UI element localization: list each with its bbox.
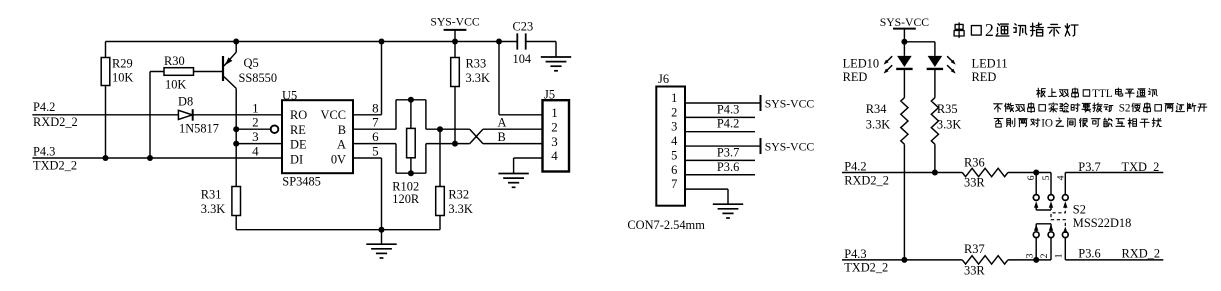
svg-text:A: A <box>337 138 346 152</box>
svg-text:J6: J6 <box>658 72 669 86</box>
svg-text:R33: R33 <box>466 57 487 71</box>
svg-text:P4.2: P4.2 <box>717 117 739 131</box>
svg-text:R29: R29 <box>112 57 133 71</box>
svg-text:TXD2_2: TXD2_2 <box>33 159 77 173</box>
svg-text:7: 7 <box>372 115 379 130</box>
svg-text:VCC: VCC <box>321 108 346 122</box>
svg-text:10K: 10K <box>112 70 133 84</box>
svg-text:J5: J5 <box>544 87 555 101</box>
svg-text:S2: S2 <box>1073 203 1086 217</box>
svg-text:P4.2: P4.2 <box>844 160 866 174</box>
svg-text:104: 104 <box>513 52 532 66</box>
svg-text:DE: DE <box>290 138 307 152</box>
svg-text:3.3K: 3.3K <box>448 202 472 216</box>
svg-text:R37: R37 <box>964 242 985 256</box>
svg-text:2: 2 <box>252 115 259 130</box>
svg-text:1: 1 <box>551 105 558 120</box>
svg-text:1: 1 <box>1054 253 1065 258</box>
svg-text:3.3K: 3.3K <box>466 71 490 85</box>
svg-text:R35: R35 <box>937 102 958 116</box>
svg-text:LED11: LED11 <box>972 57 1008 71</box>
svg-text:SYS-VCC: SYS-VCC <box>765 140 815 153</box>
svg-text:R30: R30 <box>164 54 185 68</box>
svg-text:6: 6 <box>671 163 677 177</box>
svg-text:1: 1 <box>671 91 677 105</box>
svg-text:TXD_2: TXD_2 <box>1122 160 1160 174</box>
svg-text:DI: DI <box>290 152 303 166</box>
svg-text:LED10: LED10 <box>843 57 879 71</box>
svg-text:B: B <box>338 123 346 137</box>
svg-text:8: 8 <box>372 100 379 115</box>
svg-text:P4.3: P4.3 <box>717 102 739 116</box>
svg-text:P4.2: P4.2 <box>33 100 55 114</box>
svg-text:D8: D8 <box>178 95 193 109</box>
svg-text:SYS-VCC: SYS-VCC <box>880 16 930 29</box>
svg-text:L: L <box>1106 88 1113 100</box>
svg-text:3.3K: 3.3K <box>201 202 225 216</box>
svg-text:P4.3: P4.3 <box>33 145 55 159</box>
svg-text:R34: R34 <box>866 102 887 116</box>
svg-text:1: 1 <box>252 100 259 115</box>
svg-text:SS8550: SS8550 <box>239 71 278 85</box>
svg-text:CON7-2.54mm: CON7-2.54mm <box>627 218 705 232</box>
svg-text:3: 3 <box>671 120 677 134</box>
svg-text:33R: 33R <box>964 264 985 278</box>
svg-text:RXD2_2: RXD2_2 <box>844 174 889 188</box>
svg-text:4: 4 <box>252 144 259 159</box>
svg-text:4: 4 <box>671 134 677 148</box>
svg-text:A: A <box>498 116 507 130</box>
svg-text:2: 2 <box>985 20 994 40</box>
svg-text:6: 6 <box>372 129 379 144</box>
svg-text:TXD2_2: TXD2_2 <box>844 261 888 275</box>
svg-text:3: 3 <box>252 129 259 144</box>
svg-text:2: 2 <box>1125 103 1131 115</box>
svg-text:P3.6: P3.6 <box>1078 247 1100 261</box>
svg-text:5: 5 <box>372 144 379 159</box>
svg-text:5: 5 <box>671 148 677 162</box>
svg-text:MSS22D18: MSS22D18 <box>1073 216 1132 230</box>
svg-text:10K: 10K <box>165 77 186 91</box>
svg-text:P3.7: P3.7 <box>717 146 739 160</box>
svg-text:SP3485: SP3485 <box>282 174 321 188</box>
svg-text:RED: RED <box>972 70 997 84</box>
svg-text:P3.6: P3.6 <box>717 160 739 174</box>
svg-text:U5: U5 <box>282 88 297 102</box>
svg-text:RXD2_2: RXD2_2 <box>33 115 78 129</box>
svg-text:R31: R31 <box>201 188 222 202</box>
svg-text:3: 3 <box>1024 253 1035 258</box>
svg-text:P3.7: P3.7 <box>1078 160 1100 174</box>
svg-text:RXD_2: RXD_2 <box>1122 247 1161 261</box>
svg-text:SYS-VCC: SYS-VCC <box>765 97 815 110</box>
svg-text:1N5817: 1N5817 <box>179 121 219 135</box>
svg-text:B: B <box>498 130 506 144</box>
svg-text:2: 2 <box>1039 253 1050 258</box>
svg-text:P4.3: P4.3 <box>844 247 866 261</box>
svg-text:R32: R32 <box>448 188 469 202</box>
svg-text:RE: RE <box>290 123 306 137</box>
svg-text:3.3K: 3.3K <box>866 117 890 131</box>
svg-text:0V: 0V <box>331 152 346 166</box>
svg-text:2: 2 <box>551 119 558 134</box>
svg-text:3: 3 <box>551 134 558 149</box>
svg-text:2: 2 <box>671 105 677 119</box>
svg-text:7: 7 <box>671 177 677 191</box>
svg-text:SYS-VCC: SYS-VCC <box>430 16 480 29</box>
svg-text:120R: 120R <box>392 192 420 206</box>
svg-text:4: 4 <box>551 148 558 163</box>
svg-text:RO: RO <box>290 108 307 122</box>
svg-text:Q5: Q5 <box>244 56 259 70</box>
svg-text:R36: R36 <box>964 155 985 169</box>
svg-text:RED: RED <box>843 70 868 84</box>
svg-text:C23: C23 <box>513 20 534 34</box>
svg-text:6: 6 <box>1026 175 1037 180</box>
svg-text:3.3K: 3.3K <box>937 117 961 131</box>
svg-text:33R: 33R <box>964 175 985 189</box>
svg-text:O: O <box>1045 118 1053 130</box>
svg-text:5: 5 <box>1041 175 1052 180</box>
svg-text:4: 4 <box>1055 175 1066 180</box>
